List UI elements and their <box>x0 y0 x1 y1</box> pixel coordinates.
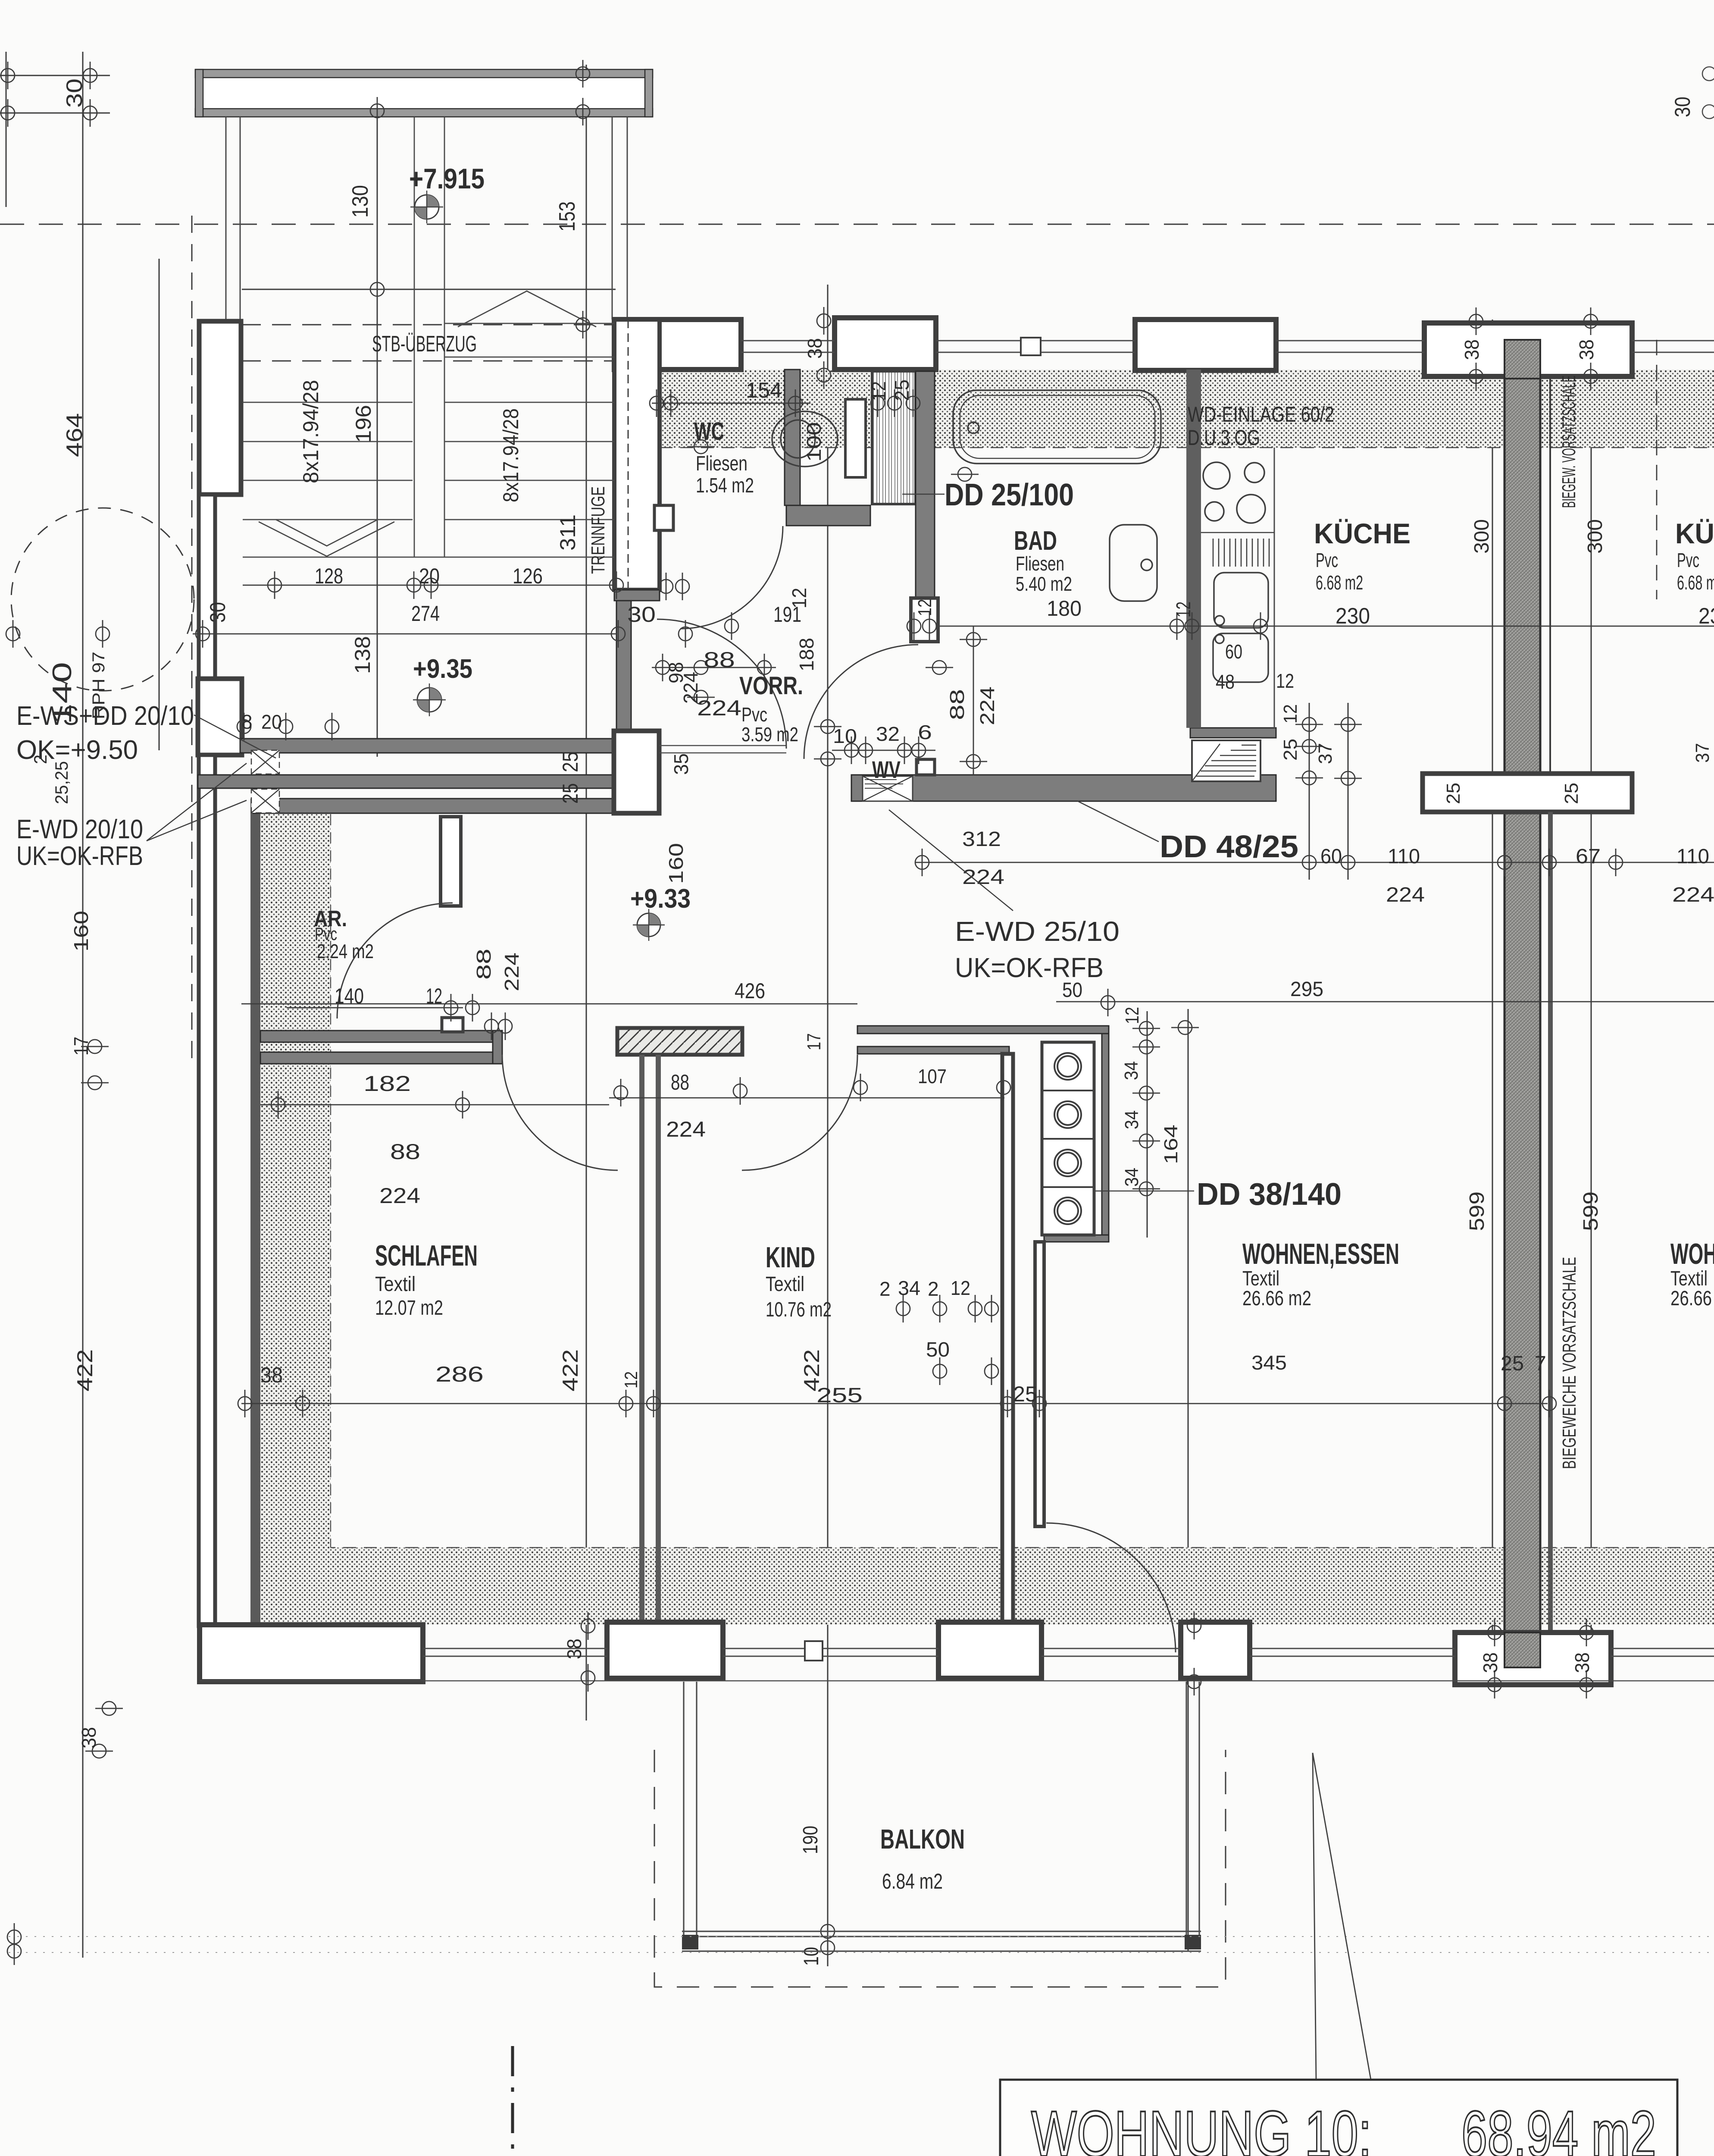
dim row rooms width y3255 <box>241 1403 1548 1404</box>
door arc balcony <box>1046 1523 1176 1652</box>
svg-text:224: 224 <box>1672 884 1714 906</box>
kitchen shaft tick columns <box>1295 718 1323 731</box>
svg-text:DD 38/140: DD 38/140 <box>1197 1177 1342 1212</box>
insulation band bottom (WD-EINLAGE) <box>260 1548 1714 1625</box>
corridor ticks y2196 <box>926 661 953 674</box>
svg-text:68.94 m2: 68.94 m2 <box>1461 2097 1656 2156</box>
strip overlay pier L5 <box>1504 1633 1540 1667</box>
E-WD wall band 2 <box>253 799 635 813</box>
stair arrow left flight <box>259 522 394 556</box>
svg-text:Pvc: Pvc <box>1677 549 1699 571</box>
stair stringer <box>414 117 415 557</box>
radiator niche outer wall <box>1102 1034 1109 1242</box>
grid axis kitchen shaft a <box>1309 703 1310 880</box>
kitchens south wall (hollow) <box>1423 774 1632 812</box>
balcony anchor left <box>682 1935 698 1949</box>
svg-text:12.07 m2: 12.07 m2 <box>375 1297 443 1319</box>
kitchen counter edge <box>1274 448 1275 729</box>
grid axis trennfuge <box>586 65 587 1720</box>
svg-text:60: 60 <box>1320 845 1342 868</box>
svg-text:422: 422 <box>558 1349 582 1391</box>
west inner wall (rooms) <box>250 799 260 1625</box>
dim row 274 <box>193 633 616 635</box>
svg-text:25: 25 <box>891 379 913 401</box>
svg-text:110: 110 <box>1388 845 1420 868</box>
title leader diagonal <box>1313 1753 1371 2080</box>
svg-text:300: 300 <box>1584 519 1607 554</box>
svg-text:2.24 m2: 2.24 m2 <box>317 940 374 962</box>
svg-text:12: 12 <box>426 984 442 1008</box>
ticks bottom wall axes <box>581 1612 595 1640</box>
ticks pier D <box>1469 307 1483 335</box>
dashed circle RPH97 <box>11 508 194 691</box>
svg-text:WOHNEN,ESSEN: WOHNEN,ESSEN <box>1670 1238 1714 1270</box>
door arc entrance <box>657 619 786 749</box>
strip overlay pier D <box>1504 340 1540 379</box>
svg-text:6.68 m2: 6.68 m2 <box>1316 571 1363 594</box>
svg-text:6.68 m2: 6.68 m2 <box>1677 571 1714 594</box>
biegeweiche Vorsatzschale grey strip <box>1504 340 1540 1667</box>
svg-text:DD 25/100: DD 25/100 <box>945 478 1074 512</box>
BAD door ticks <box>907 612 921 640</box>
door arc BAD <box>804 645 918 759</box>
radiator tick column <box>1132 1022 1160 1035</box>
grid axis stair center <box>377 74 378 757</box>
svg-text:12: 12 <box>951 1277 970 1299</box>
door arc KIND <box>742 1055 857 1170</box>
svg-text:230: 230 <box>1698 604 1714 629</box>
grid axis plan center <box>827 285 829 1966</box>
svg-text:2: 2 <box>30 755 50 764</box>
svg-text:6: 6 <box>918 721 932 743</box>
svg-text:3.59 m2: 3.59 m2 <box>741 723 798 746</box>
svg-text:88: 88 <box>704 648 735 672</box>
level mark +9.33 <box>633 909 665 941</box>
top exterior pier B <box>835 318 936 370</box>
svg-text:110: 110 <box>1676 845 1709 868</box>
svg-text:12: 12 <box>1276 670 1294 692</box>
grid axis radiator column <box>1147 1011 1148 1238</box>
svg-text:312: 312 <box>962 828 1001 851</box>
svg-text:Pvc: Pvc <box>741 703 767 726</box>
corridor lines east of column <box>659 745 786 746</box>
svg-text:25: 25 <box>1443 783 1464 804</box>
leader DD 38/140 <box>1095 1191 1194 1192</box>
top exterior pier D <box>1424 323 1632 376</box>
svg-text:30: 30 <box>206 602 230 623</box>
lintel hatched (17) <box>617 1028 742 1055</box>
small ticks near AR wall <box>485 1012 498 1040</box>
svg-text:Textil: Textil <box>766 1273 804 1296</box>
svg-text:180: 180 <box>1047 596 1082 620</box>
kitchen south lip <box>1190 728 1276 738</box>
svg-text:37: 37 <box>1315 743 1336 764</box>
svg-text:8: 8 <box>241 711 253 733</box>
svg-text:160: 160 <box>665 843 687 884</box>
svg-text:599: 599 <box>1466 1191 1489 1231</box>
ticks canopy bar <box>370 97 384 125</box>
BAD door vertical dim <box>973 626 974 775</box>
svg-text:426: 426 <box>735 979 765 1003</box>
svg-text:38: 38 <box>563 1639 585 1659</box>
canopy bar top <box>195 69 653 117</box>
dim row 10/32/6 <box>832 750 935 751</box>
BAD west wall <box>916 371 935 599</box>
svg-text:TRENNFUGE: TRENNFUGE <box>588 486 609 574</box>
door arc AR <box>337 903 453 1018</box>
svg-text:12: 12 <box>621 1371 641 1388</box>
dim row 426 <box>241 1003 857 1005</box>
dashed overhead line stair y837 <box>242 360 616 362</box>
svg-text:7: 7 <box>1535 1352 1546 1375</box>
svg-text:17: 17 <box>70 1037 92 1056</box>
svg-text:188: 188 <box>795 638 818 671</box>
svg-text:60: 60 <box>1225 640 1242 663</box>
svg-text:160: 160 <box>70 911 92 952</box>
svg-text:SCHLAFEN: SCHLAFEN <box>375 1239 478 1272</box>
building outer face line bottom <box>200 1680 1714 1682</box>
right edge axis circles <box>1702 67 1714 119</box>
svg-text:38: 38 <box>1479 1652 1501 1673</box>
svg-text:34: 34 <box>1121 1110 1142 1129</box>
svg-text:50: 50 <box>1062 979 1082 1002</box>
svg-text:107: 107 <box>918 1065 947 1087</box>
svg-text:286: 286 <box>435 1362 484 1386</box>
ticks top window axis <box>817 307 831 335</box>
door arc SCHLAFEN <box>502 1055 618 1170</box>
svg-text:Pvc: Pvc <box>1316 549 1338 571</box>
svg-text:224: 224 <box>379 1184 420 1208</box>
bottom pier L1 corner <box>200 1625 423 1682</box>
SCHLAFEN/KIND wall line a <box>639 1055 644 1622</box>
ticks left bottom <box>95 1702 123 1715</box>
grid axis vertical left B (dimension chain line) <box>82 52 84 1958</box>
KIND east wall <box>1002 1054 1013 1622</box>
tick stair top <box>370 276 384 303</box>
balcony dashed outline <box>654 1750 1226 1987</box>
bottom pier L4 <box>1181 1622 1250 1678</box>
WC west wall (Trennfuge double wall) <box>614 320 660 590</box>
bottom pier L2 <box>607 1622 723 1678</box>
svg-text:KÜCHE: KÜCHE <box>1314 517 1411 549</box>
duct DD48/25 <box>1192 740 1260 781</box>
entrance wall column <box>614 731 659 813</box>
balcony side wall left <box>682 1682 1201 1951</box>
stair arrow right flight <box>458 291 596 327</box>
dim row stairs 128 20 126 <box>243 585 614 586</box>
E-WS cross box 1 <box>251 750 279 774</box>
grid axis kitchen shaft b <box>1348 703 1349 880</box>
svg-text:25,25: 25,25 <box>51 761 72 804</box>
svg-text:KIND: KIND <box>766 1241 815 1274</box>
svg-text:300: 300 <box>1470 519 1493 554</box>
ticks balcony center <box>821 1918 835 1945</box>
svg-text:35: 35 <box>670 753 692 775</box>
svg-text:E-WD 25/10: E-WD 25/10 <box>955 916 1120 947</box>
dim row 182/88 y2562 left <box>260 1104 609 1106</box>
ticks far left balcony level <box>7 1923 21 1951</box>
AR south wall band b <box>260 1052 502 1064</box>
svg-text:599: 599 <box>1580 1191 1602 1231</box>
kitchen fridge 60 <box>1213 633 1268 682</box>
svg-text:48: 48 <box>1216 671 1235 693</box>
title leader vertical <box>1313 1753 1316 2080</box>
bottom pier L3 <box>938 1622 1042 1678</box>
svg-text:38: 38 <box>260 1363 283 1387</box>
svg-text:34: 34 <box>1121 1061 1142 1080</box>
svg-text:BAD: BAD <box>1014 526 1057 556</box>
svg-text:274: 274 <box>411 602 440 626</box>
svg-text:38: 38 <box>1571 1652 1593 1673</box>
svg-text:32: 32 <box>876 723 900 745</box>
stair west exterior wall <box>199 321 241 495</box>
svg-text:224: 224 <box>962 866 1004 889</box>
svg-text:25: 25 <box>558 752 582 772</box>
svg-text:295: 295 <box>1290 978 1323 1001</box>
svg-text:20: 20 <box>261 711 282 733</box>
shaft top ticks <box>871 389 885 417</box>
grid axis vertical dashed D <box>191 216 193 1065</box>
svg-text:DD 48/25: DD 48/25 <box>1160 830 1298 864</box>
svg-text:WV: WV <box>872 756 901 783</box>
radiator DD38/140 <box>1042 1042 1094 1235</box>
svg-text:D.U.3.OG: D.U.3.OG <box>1188 426 1260 450</box>
svg-text:12: 12 <box>1280 704 1301 724</box>
svg-text:190: 190 <box>799 1826 822 1854</box>
svg-text:12: 12 <box>914 599 935 616</box>
shaft partition <box>845 399 866 477</box>
svg-text:+9.33: +9.33 <box>630 884 691 914</box>
svg-text:8x17.94/28: 8x17.94/28 <box>299 380 323 483</box>
svg-text:WD-EINLAGE 60/2: WD-EINLAGE 60/2 <box>1188 402 1334 426</box>
svg-text:224: 224 <box>697 696 741 720</box>
KIND north wall top edge <box>857 1026 1109 1034</box>
ticks left margin mid <box>6 620 20 648</box>
door arc WC <box>680 526 783 629</box>
axis ticks top-left rows <box>1 62 15 89</box>
svg-text:10: 10 <box>800 1947 823 1966</box>
dim row 312/224 kitchen south <box>916 862 1714 863</box>
grid axis balcony right <box>1188 1009 1189 1951</box>
dashed overhead line stair y753 <box>242 324 616 326</box>
svg-text:20: 20 <box>419 564 440 588</box>
grid axis right pier b <box>1591 320 1592 1685</box>
level mark +7.915 <box>410 191 443 223</box>
window symbol top <box>1021 338 1041 355</box>
title box <box>1000 2080 1677 2156</box>
svg-text:34: 34 <box>1121 1168 1142 1187</box>
stair west corner block <box>198 679 242 755</box>
svg-text:12: 12 <box>788 588 810 608</box>
svg-text:2: 2 <box>879 1278 891 1300</box>
leader DD 48/25 <box>1078 801 1159 842</box>
svg-text:38: 38 <box>1575 339 1598 360</box>
VORR west wall <box>616 601 631 740</box>
svg-text:+7.915: +7.915 <box>409 163 485 194</box>
svg-text:196: 196 <box>351 405 375 443</box>
dim row WC door 88/224 <box>652 667 776 668</box>
leader E-WD 20/10 <box>147 763 247 841</box>
top exterior pier C <box>1135 320 1276 370</box>
svg-text:25: 25 <box>1561 783 1582 804</box>
insulation band top (WD-EINLAGE) <box>660 370 1714 448</box>
KIND SE tick cluster <box>896 1295 910 1322</box>
WOHNEN west wall lower <box>1035 1242 1044 1526</box>
horizontal axis row top 1 <box>0 75 110 76</box>
entrance ticks 8/20 <box>237 713 251 740</box>
svg-text:E-WD 20/10: E-WD 20/10 <box>16 815 143 844</box>
dim row AR 140/12 <box>287 1007 463 1009</box>
svg-text:154: 154 <box>746 378 782 402</box>
stair treads right flight <box>444 402 614 403</box>
svg-text:50: 50 <box>926 1338 950 1361</box>
E-WD cross box 2 <box>251 789 279 813</box>
svg-text:VORR.: VORR. <box>739 672 803 700</box>
top exterior pier A <box>614 320 741 370</box>
svg-text:Fliesen: Fliesen <box>1016 552 1064 575</box>
svg-text:128: 128 <box>315 564 343 588</box>
WV box <box>863 776 913 801</box>
svg-text:Textil: Textil <box>375 1273 416 1296</box>
svg-text:BALKON: BALKON <box>880 1824 965 1855</box>
svg-text:164: 164 <box>1160 1125 1182 1164</box>
WC niche <box>654 505 673 530</box>
corridor south wall (BAD/KUECHE) <box>851 775 1276 801</box>
svg-text:88: 88 <box>671 1070 689 1094</box>
bottom pier L5 <box>1455 1633 1611 1685</box>
svg-text:464: 464 <box>62 413 87 457</box>
mirror unit west wall line <box>1548 812 1553 1633</box>
svg-text:100: 100 <box>803 422 825 462</box>
svg-text:5.40 m2: 5.40 m2 <box>1016 573 1072 595</box>
WC/shaft jog wall <box>786 505 870 526</box>
svg-text:30: 30 <box>1670 97 1695 117</box>
svg-text:1.54 m2: 1.54 m2 <box>696 474 754 497</box>
dim row WC width 154 <box>652 403 810 404</box>
west exterior wall upper <box>199 495 215 679</box>
AR east closet wall <box>441 817 461 906</box>
svg-text:12: 12 <box>867 381 890 401</box>
WC south stub wall <box>614 590 660 601</box>
svg-text:224: 224 <box>666 1117 706 1141</box>
kitchen drainer <box>1213 539 1269 567</box>
bathtub <box>953 390 1161 464</box>
toilet WC <box>772 411 838 467</box>
svg-text:BIEGEWEICHE VORSATZSCHALE: BIEGEWEICHE VORSATZSCHALE <box>1559 1257 1580 1469</box>
svg-text:34: 34 <box>898 1277 920 1299</box>
window sills bottom wall <box>423 1648 1714 1656</box>
niche bump next to WV <box>916 759 935 775</box>
stair south wall <box>240 739 614 753</box>
svg-text:38: 38 <box>804 338 826 359</box>
balcony slab lines <box>682 1930 1201 1932</box>
stair treads left flight <box>243 117 614 557</box>
WC interior ticks <box>659 573 673 600</box>
svg-text:224: 224 <box>976 686 998 725</box>
svg-text:30: 30 <box>627 602 656 627</box>
svg-text:WC: WC <box>694 417 724 445</box>
svg-text:12: 12 <box>1122 1007 1143 1024</box>
stair house projected side walls <box>226 117 627 321</box>
svg-text:88: 88 <box>472 949 495 980</box>
SCHLAFEN/KIND wall line b <box>656 1055 661 1622</box>
wash basin BAD <box>1110 525 1157 601</box>
AR door jamb notch <box>442 1018 463 1032</box>
svg-text:182: 182 <box>363 1072 411 1096</box>
kitchen west wall <box>1186 370 1201 728</box>
svg-text:140: 140 <box>335 984 364 1008</box>
svg-text:230: 230 <box>1336 604 1370 629</box>
svg-text:88: 88 <box>946 689 968 720</box>
svg-text:10: 10 <box>833 725 857 747</box>
svg-text:224: 224 <box>1386 884 1425 906</box>
svg-text:25: 25 <box>558 783 582 804</box>
svg-text:38: 38 <box>1461 339 1483 360</box>
leader E-WS+DD <box>194 715 276 758</box>
left ticks rooms <box>81 1040 109 1053</box>
VORR ticks <box>679 620 692 648</box>
svg-text:345: 345 <box>1251 1351 1287 1374</box>
svg-text:88: 88 <box>390 1140 420 1164</box>
grid axis vertical left C <box>159 259 160 750</box>
svg-text:67: 67 <box>1576 845 1601 868</box>
svg-text:26.66 m2: 26.66 m2 <box>1242 1287 1311 1310</box>
svg-text:422: 422 <box>73 1349 97 1391</box>
shaft DD25/100 <box>872 371 916 504</box>
svg-text:25: 25 <box>1013 1382 1037 1406</box>
faint level line a <box>9 1936 1714 1937</box>
svg-text:BIEGEW. VORSATZSCHALE: BIEGEW. VORSATZSCHALE <box>1558 376 1580 508</box>
KIND north wall bottom edge <box>857 1047 1009 1054</box>
west exterior wall lower <box>199 755 215 1626</box>
svg-text:30: 30 <box>62 78 87 108</box>
svg-text:STB-ÜBERZUG: STB-ÜBERZUG <box>372 332 477 357</box>
svg-text:126: 126 <box>513 564 543 588</box>
svg-text:25: 25 <box>1501 1352 1524 1375</box>
grid axis vertical left A <box>6 52 7 207</box>
insulation band west vertical <box>260 814 331 1625</box>
svg-text:25: 25 <box>1280 739 1301 761</box>
svg-text:+9.35: +9.35 <box>413 654 472 684</box>
horizontal axis row top 2 <box>0 113 110 114</box>
svg-text:8x17.94/28: 8x17.94/28 <box>499 408 523 502</box>
grid axis right pier a <box>1492 320 1493 1685</box>
kitchen sink <box>1214 573 1268 628</box>
dim row kitchen 230/180 <box>940 626 1714 627</box>
svg-text:37: 37 <box>1692 743 1713 763</box>
svg-text:26.66 m2: 26.66 m2 <box>1670 1287 1714 1310</box>
radiator niche bottom <box>1044 1235 1109 1242</box>
E-WS wall band 1 <box>198 775 614 788</box>
svg-text:130: 130 <box>348 185 373 218</box>
stair top line <box>242 289 616 290</box>
svg-text:WOHNUNG 10:: WOHNUNG 10: <box>1031 2097 1372 2156</box>
svg-text:17: 17 <box>804 1033 825 1050</box>
AR south wall band a <box>260 1031 502 1042</box>
svg-text:38: 38 <box>78 1727 100 1749</box>
svg-text:Fliesen: Fliesen <box>696 452 748 475</box>
leader DD 25/100 <box>902 494 945 495</box>
svg-text:255: 255 <box>816 1384 863 1407</box>
svg-text:12: 12 <box>1172 602 1195 617</box>
svg-text:KÜCHE: KÜCHE <box>1675 517 1714 549</box>
svg-text:WOHNEN,ESSEN: WOHNEN,ESSEN <box>1242 1238 1399 1270</box>
kitchen stove <box>1201 462 1274 533</box>
svg-text:138: 138 <box>350 636 375 674</box>
level mark +9.35 <box>413 683 446 716</box>
section marker D line <box>511 2046 514 2156</box>
WC east wall <box>785 370 800 505</box>
